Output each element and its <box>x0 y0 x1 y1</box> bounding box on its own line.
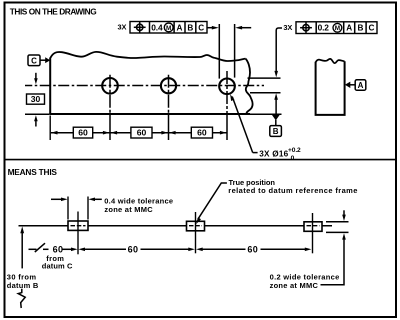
main horizontal centerline of hole pattern <box>19 225 333 227</box>
svg-text:M: M <box>335 25 340 32</box>
hole 3 right width extension line <box>234 24 236 78</box>
true position leader <box>198 183 227 219</box>
dimension 30: upper down-arrow to centerline <box>35 73 37 80</box>
60 box 3 <box>191 127 212 138</box>
part bottom edge right extension <box>250 113 282 115</box>
part outline: left edge <box>49 58 51 115</box>
feature control frame 2 leader elbow <box>276 28 282 72</box>
svg-text:A: A <box>358 81 364 90</box>
datum A filled triangle <box>345 82 350 88</box>
part bottom edge left extension <box>25 113 49 115</box>
FCF1 arrow to left extension line <box>207 27 213 29</box>
part outline: broken (torn) right edge <box>246 59 253 114</box>
svg-text:MEANS THIS: MEANS THIS <box>8 167 58 177</box>
arrow into zone 1 line <box>62 248 72 250</box>
svg-text:60: 60 <box>128 244 139 254</box>
MMC modifier in FCF2 <box>333 23 342 32</box>
datum B symbol box <box>270 126 282 137</box>
side view: left, bottom, right edges <box>316 61 345 115</box>
hole 1 vertical centerline <box>109 75 111 116</box>
svg-text:60: 60 <box>247 244 258 254</box>
60 box 2 <box>131 127 152 138</box>
datum C leader <box>40 59 46 61</box>
zone 3 crosshair <box>312 213 314 253</box>
svg-text:zone at MMC: zone at MMC <box>270 281 319 290</box>
hole 1 <box>102 78 118 94</box>
arrow to right extension line <box>235 26 242 30</box>
zone 1 width extension lines <box>67 197 69 220</box>
svg-text:zone at MMC: zone at MMC <box>104 205 153 214</box>
datum B leader stem <box>275 120 277 126</box>
hole 3 vertical centerline <box>226 71 228 116</box>
section divider line <box>4 159 396 161</box>
svg-text:M: M <box>166 25 171 32</box>
tolerance zone rect 2 <box>187 221 205 231</box>
svg-text:0.4: 0.4 <box>151 22 163 32</box>
feature control frame 2 box <box>296 22 377 34</box>
hole 2 vertical centerline <box>168 75 170 116</box>
datum B filled triangle on bottom edge extension <box>272 115 280 120</box>
svg-text:datum C: datum C <box>42 262 73 271</box>
60 dimension zone2 to zone3 <box>196 248 203 252</box>
position symbol in FCF2 <box>303 25 309 31</box>
svg-text:+0.2: +0.2 <box>288 147 301 154</box>
svg-text:datum B: datum B <box>7 281 39 290</box>
60 dimension zone1 to zone2 <box>78 248 85 252</box>
svg-text:C: C <box>369 24 375 33</box>
svg-text:THIS ON THE DRAWING: THIS ON THE DRAWING <box>10 7 96 17</box>
position symbol in FCF1 <box>137 24 143 30</box>
svg-text:B: B <box>273 127 279 136</box>
svg-text:B: B <box>187 23 193 32</box>
arrowhead at left edge <box>51 131 58 135</box>
dimension line 60/60/60 <box>51 132 227 134</box>
svg-text:A: A <box>177 23 183 32</box>
tolerance zone rect 3 <box>304 222 322 232</box>
30 from datum B dimension: up arrow to centerline <box>20 226 24 233</box>
svg-text:3X: 3X <box>283 23 292 32</box>
datum A leader <box>350 84 355 86</box>
svg-text:C: C <box>31 56 37 65</box>
0.2 height up-arrow with leader to note <box>342 233 346 239</box>
zone 2 crosshair <box>195 212 197 253</box>
0.2 height down-arrow <box>343 210 345 215</box>
svg-text:3X: 3X <box>118 23 127 32</box>
side view: wavy top edge <box>316 59 345 63</box>
zone 3 height extension lines <box>326 221 349 223</box>
datum C symbol box <box>28 55 40 66</box>
part outline: wavy top edge <box>51 52 246 61</box>
svg-text:60: 60 <box>137 128 147 138</box>
svg-text:30: 30 <box>31 94 41 104</box>
svg-text:60: 60 <box>197 128 207 138</box>
vertical size dimension up-arrow below hole tangent <box>274 93 278 100</box>
extension line below part left edge <box>49 116 51 141</box>
30 from datum B dimension line (broken) <box>21 233 23 269</box>
part outline: bottom edge <box>49 113 250 115</box>
arrowheads at hole 1 line <box>103 131 110 135</box>
svg-text:C: C <box>198 23 204 32</box>
arrowhead at hole 3 line <box>220 131 227 135</box>
hole 3 <box>219 79 235 95</box>
zone 1 crosshair <box>77 212 79 255</box>
feature control frame 1 box <box>130 22 207 34</box>
svg-text:60: 60 <box>78 128 88 138</box>
dimension 30: lower up-arrow to bottom edge <box>34 115 38 121</box>
svg-text:60: 60 <box>53 244 64 254</box>
svg-text:A: A <box>346 24 352 33</box>
svg-text:related to datum reference fra: related to datum reference frame <box>228 186 358 195</box>
hole 3 left width extension line <box>218 24 220 79</box>
tolerance zone rect 1 <box>68 221 88 230</box>
hole 3 bottom tangent extension line (right) <box>250 92 281 94</box>
hole 2 <box>161 78 176 93</box>
60 box 1 <box>73 127 92 138</box>
arrowheads at hole 2 line <box>161 131 168 135</box>
datum C filled triangle <box>45 57 50 63</box>
hole 3 top tangent extension line (right) <box>248 77 281 79</box>
hole size note leader <box>253 152 258 154</box>
dimension 30 boxed value <box>27 94 45 104</box>
bottom dimension line: 60 from datum C (broken) <box>29 248 37 250</box>
svg-text:0: 0 <box>291 155 295 162</box>
horizontal centerline through holes <box>25 85 264 87</box>
datum A symbol box <box>355 80 366 90</box>
MMC modifier in FCF1 <box>164 23 173 32</box>
svg-text:3X Ø16: 3X Ø16 <box>259 150 288 159</box>
svg-text:B: B <box>357 24 363 33</box>
svg-text:0.2: 0.2 <box>318 23 330 33</box>
0.4 width arrows <box>51 198 62 200</box>
